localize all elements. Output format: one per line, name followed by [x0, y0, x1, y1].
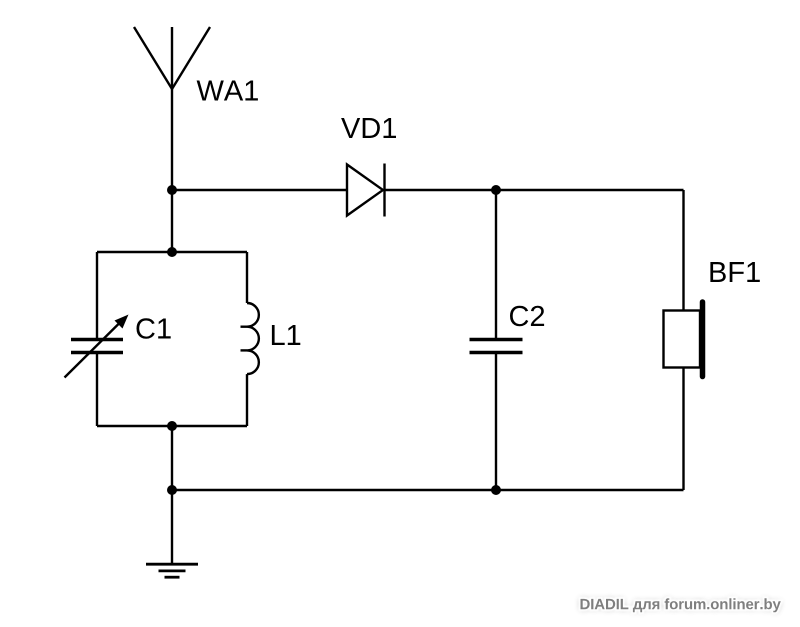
wire tank right upper (to coil top) — [246, 252, 248, 303]
wire C2 lower — [495, 353, 497, 491]
wire tank left lower (C1 bottom plate down) — [96, 353, 98, 427]
label C2 — [510, 306, 544, 327]
label L1 — [272, 325, 300, 345]
wire tank right lower (coil bottom down) — [246, 374, 248, 426]
wire top bus right (diode cathode to BF1 corner) — [385, 189, 684, 191]
wire antenna mast down to tank top — [171, 89, 173, 252]
label VD1 — [341, 118, 396, 138]
node tank circuit bottom — [167, 421, 177, 431]
wire tank bottom to ground bus — [171, 426, 173, 490]
label WA1 — [197, 81, 258, 101]
wire C2 upper — [495, 190, 497, 340]
node junction C2 top — [491, 185, 501, 195]
wire top bus left (junction to diode anode) — [172, 189, 347, 191]
inductor L1 — [241, 303, 259, 374]
label C1 — [137, 318, 171, 339]
node junction C2 bottom — [491, 485, 501, 495]
capacitor C2 — [470, 340, 523, 353]
wire tank top side — [97, 251, 247, 253]
node junction antenna / diode — [167, 185, 177, 195]
label BF1 — [710, 262, 759, 282]
wire tank bottom side — [97, 425, 247, 427]
ground — [146, 564, 198, 577]
watermark — [581, 598, 781, 612]
wire BF1 lower — [682, 368, 684, 491]
antenna WA1 — [134, 27, 210, 89]
wire tank left upper (to C1 top plate) — [96, 252, 98, 340]
speaker BF1 — [664, 302, 703, 377]
wire bottom bus — [172, 489, 684, 491]
node tank circuit top — [167, 247, 177, 257]
diode VD1 — [347, 164, 385, 217]
wire ground stem — [171, 490, 173, 564]
node ground bus junction — [167, 485, 177, 495]
wire BF1 upper — [682, 190, 684, 311]
capacitor C1 (variable) — [65, 315, 129, 378]
